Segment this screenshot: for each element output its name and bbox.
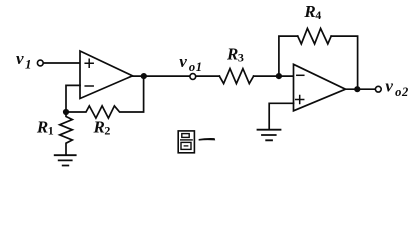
wire U1 - input to node A [66,85,80,112]
node B (U1 output) [141,73,147,79]
resistor R2 [66,76,144,118]
ground [55,155,76,165]
svg-text:3: 3 [238,50,244,64]
svg-text:R: R [226,45,238,64]
svg-text:2: 2 [104,124,110,138]
svg-text:v: v [16,49,24,68]
label vo1 [179,52,202,74]
wire node C up to R4 [279,36,298,76]
node A [63,109,69,115]
label R4 [303,2,321,22]
label R3 [226,45,244,65]
resistor R3 [219,69,253,84]
wire U1 output to vo1 [133,75,190,77]
label R2 [93,118,111,138]
wire vo1 to R3 [196,75,220,77]
svg-text:v: v [179,52,187,71]
U2 minus sign [297,74,304,76]
node D (U2 output) [354,86,360,92]
svg-text:o1: o1 [189,60,203,74]
caption "圖" (Figure) drawn as strokes [178,131,194,153]
ground [258,130,281,141]
resistor R4 [298,28,332,44]
label v1 [16,49,32,72]
wire R4 down to U2 output node [331,36,357,89]
svg-text:R: R [93,118,105,137]
wire U2 output to vo2 [346,88,376,90]
caption "一" (one) [199,138,216,141]
node vo2 terminal [375,86,381,92]
svg-text:4: 4 [315,8,321,22]
label R1 [36,118,54,138]
U2 plus sign [296,96,304,104]
op-amp U2 [294,64,346,111]
U1 minus sign [85,85,93,87]
svg-text:v: v [385,76,393,95]
wire v1 to op-amp U1 + input [43,62,80,64]
svg-text:o2: o2 [395,85,409,99]
U1 plus sign [85,59,93,67]
resistor R1 [60,112,73,155]
wire R3 to U2 - input [254,75,294,77]
node v1 terminal [37,60,43,66]
svg-text:1: 1 [48,124,54,138]
svg-text:R: R [36,118,48,137]
node C [276,73,282,79]
svg-text:R: R [303,2,315,21]
svg-text:1: 1 [25,57,32,72]
node vo1 terminal [190,74,196,80]
wire U2 + input to ground [269,103,293,129]
op-amp U1 [80,51,133,99]
label vo2 [385,76,408,99]
